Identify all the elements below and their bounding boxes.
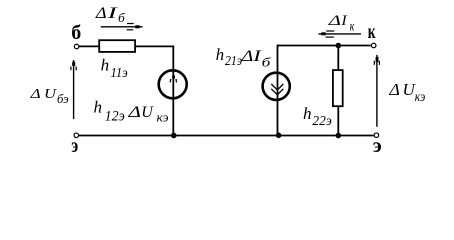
wire collector top: [278, 45, 371, 47]
wire h22э bottom lead: [337, 107, 339, 135]
terminal э right: [374, 133, 379, 138]
svg-text:U: U: [141, 104, 154, 121]
arrow ΔUбэ: [71, 60, 76, 119]
svg-text:h: h: [216, 45, 225, 64]
svg-text:I: I: [252, 48, 262, 65]
arrow ΔIк: [318, 31, 361, 37]
source J1 double chevron down: [271, 84, 283, 95]
svg-text:кэ: кэ: [415, 89, 426, 104]
svg-text:Δ: Δ: [388, 80, 400, 99]
bottom rail: [79, 135, 374, 137]
svg-text:h: h: [101, 55, 110, 74]
svg-text:Δ: Δ: [127, 104, 141, 121]
junction dot top h22э branch: [336, 43, 342, 49]
resistor h22э: [333, 70, 343, 106]
svg-text:11э: 11э: [111, 65, 128, 80]
terminal э left: [74, 133, 79, 138]
svg-text:к: к: [368, 21, 376, 43]
source J1 h21эΔIб circle: [263, 73, 290, 100]
svg-text:I: I: [106, 5, 118, 22]
wire vertical left branch: [172, 46, 174, 136]
svg-text:22э: 22э: [312, 113, 331, 128]
terminal к: [371, 43, 376, 48]
svg-text:h: h: [303, 104, 312, 123]
svg-text:Δ: Δ: [29, 87, 40, 102]
wire h22э top lead: [337, 46, 339, 70]
svg-text:бэ: бэ: [57, 91, 69, 106]
source E1 arrow up: [170, 75, 176, 82]
svg-text:21э: 21э: [225, 53, 242, 68]
junction dot left branch bottom: [171, 133, 177, 139]
svg-text:э: э: [373, 135, 382, 154]
svg-text:э: э: [71, 135, 78, 154]
arrow ΔUкэ: [374, 55, 379, 127]
svg-text:к: к: [350, 19, 355, 34]
svg-text:Δ: Δ: [240, 48, 253, 65]
svg-text:кэ: кэ: [157, 109, 169, 124]
resistor h11э: [99, 40, 135, 52]
arrow ΔIб: [101, 24, 143, 30]
wire base input top: [79, 45, 98, 47]
wire vertical current source branch: [277, 45, 279, 136]
svg-text:I: I: [340, 13, 347, 29]
svg-text:Δ: Δ: [95, 5, 107, 22]
svg-text:б: б: [118, 10, 125, 25]
svg-text:h: h: [94, 97, 103, 116]
svg-text:б: б: [262, 54, 271, 69]
svg-text:Δ: Δ: [327, 13, 341, 29]
junction dot current source bottom: [276, 133, 282, 139]
terminal б: [74, 44, 79, 49]
svg-text:U: U: [44, 87, 57, 102]
wire resistor to corner: [135, 45, 174, 47]
source E1 h12эΔUкэ circle: [159, 70, 187, 98]
svg-text:б: б: [71, 22, 81, 44]
junction dot h22э bottom: [336, 133, 342, 139]
svg-text:12э: 12э: [105, 109, 125, 125]
